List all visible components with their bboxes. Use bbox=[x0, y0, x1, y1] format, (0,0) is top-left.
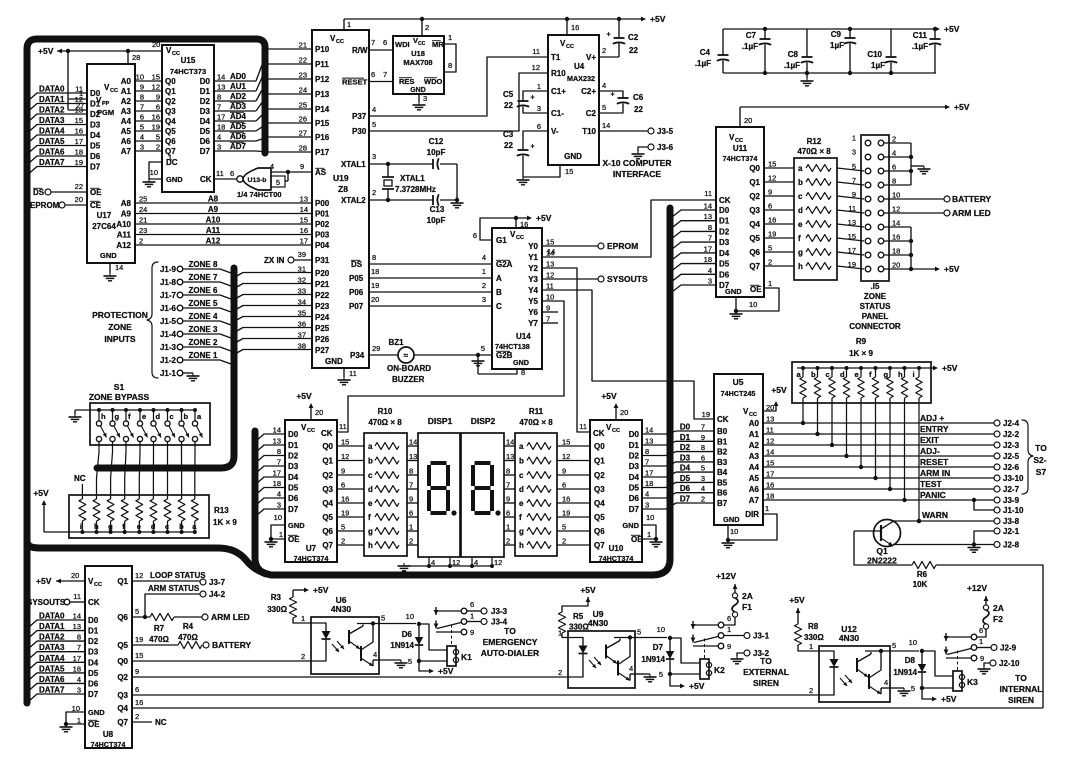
svg-text:D0: D0 bbox=[88, 616, 99, 625]
IC U7 74HCT374 display latch bbox=[285, 420, 337, 562]
svg-text:8: 8 bbox=[892, 177, 896, 186]
svg-text:J2-4: J2-4 bbox=[1003, 419, 1020, 428]
svg-text:15: 15 bbox=[75, 116, 83, 125]
svg-text:8: 8 bbox=[645, 447, 649, 456]
svg-text:P11: P11 bbox=[315, 60, 329, 69]
IC U8 74HCT374 output latch bbox=[85, 566, 132, 748]
wire DATA5 to U17 D5 bbox=[29, 146, 87, 153]
svg-text:U13-b: U13-b bbox=[248, 177, 267, 184]
capacitor C4 .1uF bbox=[718, 54, 729, 56]
wire R10 a to DISP1 bbox=[407, 445, 418, 447]
resistor R13-c bbox=[164, 499, 171, 521]
wire bus to U7 D0 bbox=[256, 434, 285, 441]
wire R9 b pull-up tap bbox=[817, 398, 819, 434]
svg-text:AD0: AD0 bbox=[230, 72, 247, 81]
svg-text:10pF: 10pF bbox=[427, 148, 446, 157]
svg-text:D2: D2 bbox=[90, 110, 101, 119]
svg-text:3: 3 bbox=[708, 277, 712, 286]
svg-text:4: 4 bbox=[602, 81, 606, 90]
svg-text:31: 31 bbox=[298, 265, 306, 274]
svg-text:Q7: Q7 bbox=[322, 541, 333, 550]
svg-text:4: 4 bbox=[645, 490, 649, 499]
wire Z8 DS to U14 G2A bbox=[369, 263, 492, 265]
relay K1 coil bbox=[447, 646, 456, 666]
wire U5 A0 signal ADJ + bbox=[763, 422, 994, 424]
svg-text:4: 4 bbox=[217, 133, 221, 142]
node ARM LED bbox=[202, 614, 208, 620]
node SYSOUTS bbox=[598, 276, 604, 282]
IC U17 27C64 EPROM bbox=[87, 64, 135, 263]
svg-text:D1: D1 bbox=[680, 433, 691, 442]
svg-text:S1: S1 bbox=[114, 382, 125, 392]
svg-text:7: 7 bbox=[140, 103, 144, 112]
wire S1-a to R13 bbox=[194, 442, 196, 499]
wire DATA2 to U17 D2 bbox=[29, 114, 87, 121]
svg-text:74HCT374: 74HCT374 bbox=[599, 554, 634, 563]
node J2-1 to ground bbox=[994, 528, 1000, 534]
svg-text:DATA5: DATA5 bbox=[39, 137, 65, 146]
svg-text:D6: D6 bbox=[90, 152, 101, 161]
wire R11 g to U10 Q6 bbox=[557, 530, 590, 532]
wire U11 Q2 to R12 c bbox=[764, 195, 794, 197]
resistor R7 470 bbox=[150, 613, 174, 620]
svg-text:12: 12 bbox=[75, 95, 83, 104]
wire DISP2 to R11 d bbox=[504, 488, 515, 490]
svg-text:+5V: +5V bbox=[954, 102, 970, 112]
svg-text:P16: P16 bbox=[315, 133, 330, 142]
svg-text:K1: K1 bbox=[461, 652, 472, 662]
svg-text:18: 18 bbox=[371, 267, 379, 276]
svg-text:7: 7 bbox=[506, 481, 510, 490]
svg-text:ZONE 6: ZONE 6 bbox=[189, 286, 218, 295]
svg-text:9: 9 bbox=[980, 654, 984, 663]
svg-text:10: 10 bbox=[909, 638, 917, 647]
svg-text:18: 18 bbox=[73, 664, 81, 673]
svg-text:21: 21 bbox=[299, 41, 307, 50]
node K2 contact 6 bbox=[718, 622, 724, 628]
node junction +5V to U17 pin28 bbox=[126, 49, 130, 53]
svg-text:1: 1 bbox=[809, 642, 813, 651]
svg-text:25: 25 bbox=[299, 101, 307, 110]
svg-text:15: 15 bbox=[848, 232, 856, 241]
svg-text:16: 16 bbox=[75, 127, 83, 136]
svg-text:4: 4 bbox=[77, 675, 81, 684]
wire U5 A6 signal TEST bbox=[763, 488, 994, 490]
svg-text:10: 10 bbox=[657, 625, 665, 634]
svg-text:10: 10 bbox=[730, 527, 738, 536]
svg-text:D6: D6 bbox=[88, 679, 99, 688]
svg-text:16: 16 bbox=[766, 481, 774, 490]
svg-text:Q5: Q5 bbox=[117, 641, 128, 650]
switch S1-d bbox=[153, 410, 155, 421]
svg-text:16: 16 bbox=[152, 113, 160, 122]
svg-text:11: 11 bbox=[579, 422, 587, 431]
svg-text:17: 17 bbox=[704, 244, 712, 253]
svg-text:ZONE: ZONE bbox=[864, 292, 887, 301]
ground S1 rail bbox=[74, 414, 76, 417]
svg-text:RESET: RESET bbox=[920, 457, 949, 467]
wire U7 Q5 to R10 f bbox=[337, 516, 364, 518]
ground crystal caps bbox=[456, 200, 458, 203]
ground J3-2 bbox=[736, 656, 738, 659]
svg-text:1N914: 1N914 bbox=[893, 668, 917, 677]
wire U17 A7 to U15 Q7 bbox=[135, 150, 162, 152]
wire R11 f to U10 Q5 bbox=[557, 516, 590, 518]
svg-text:d: d bbox=[156, 412, 161, 421]
svg-text:U19: U19 bbox=[333, 173, 349, 183]
svg-text:5: 5 bbox=[701, 464, 705, 473]
svg-text:P03: P03 bbox=[315, 231, 330, 240]
svg-text:GND: GND bbox=[410, 87, 426, 94]
svg-text:13: 13 bbox=[546, 260, 554, 269]
svg-text:D1: D1 bbox=[288, 441, 299, 450]
svg-text:16: 16 bbox=[768, 216, 776, 225]
switch S1-c bbox=[167, 410, 169, 421]
svg-text:LOOP STATUS: LOOP STATUS bbox=[150, 571, 206, 580]
wire DATA1 to U17 D1 bbox=[29, 104, 87, 111]
svg-text:470Ω: 470Ω bbox=[149, 635, 169, 644]
svg-text:8: 8 bbox=[277, 447, 281, 456]
svg-text:13: 13 bbox=[75, 106, 83, 115]
svg-text:7: 7 bbox=[371, 38, 375, 47]
wire R10 f to DISP1 bbox=[407, 516, 418, 518]
wire A12 bus U17 to Z8 P04 bbox=[135, 244, 312, 246]
svg-text:AS: AS bbox=[315, 168, 327, 177]
svg-text:J2-8: J2-8 bbox=[1003, 541, 1020, 550]
wire - thick outline bottom edge joining display section and right bus bbox=[28, 208, 670, 575]
svg-text:D7: D7 bbox=[200, 147, 211, 156]
svg-text:EMERGENCY: EMERGENCY bbox=[483, 637, 538, 647]
wire zone bus to Z8 P22 bbox=[234, 295, 312, 300]
svg-text:INTERNAL: INTERNAL bbox=[1000, 684, 1043, 694]
svg-text:2: 2 bbox=[602, 46, 606, 55]
svg-text:D3: D3 bbox=[719, 238, 730, 247]
svg-text:17: 17 bbox=[73, 654, 81, 663]
svg-text:P25: P25 bbox=[315, 324, 330, 333]
wire DATA7 to U17 D7 bbox=[29, 167, 87, 174]
wire U17 A2 to U15 Q2 bbox=[135, 100, 162, 102]
capacitor C11 .1uF bbox=[934, 29, 936, 39]
svg-text:6: 6 bbox=[473, 231, 477, 240]
wire relay K2 actuator link bbox=[704, 639, 706, 660]
svg-text:Q0: Q0 bbox=[322, 442, 333, 451]
transistor pair inside U6 bbox=[348, 630, 350, 644]
svg-text:20: 20 bbox=[766, 403, 774, 412]
svg-text:13: 13 bbox=[73, 622, 81, 631]
IC U15 74HCT373 address latch bbox=[162, 45, 214, 192]
svg-text:GND: GND bbox=[622, 521, 639, 530]
svg-text:C2: C2 bbox=[586, 109, 597, 118]
svg-text:i: i bbox=[80, 522, 82, 531]
svg-text:DATA2: DATA2 bbox=[39, 633, 65, 642]
svg-text:D0: D0 bbox=[90, 89, 101, 98]
svg-text:6: 6 bbox=[341, 481, 345, 490]
svg-text:A10: A10 bbox=[206, 216, 221, 225]
wire U18 Vcc pin2 to +5V rail bbox=[421, 19, 423, 36]
wire DISP2 to R11 b bbox=[504, 460, 515, 462]
svg-text:≈: ≈ bbox=[404, 351, 409, 360]
svg-text:6: 6 bbox=[506, 509, 510, 518]
wire U5 A5 signal ARM IN bbox=[763, 477, 994, 479]
relay K1 contact arm bbox=[436, 610, 461, 612]
wire bus to U11 D4 bbox=[672, 253, 716, 260]
svg-text:P02: P02 bbox=[315, 220, 330, 229]
svg-text:13: 13 bbox=[409, 452, 417, 461]
svg-text:18: 18 bbox=[217, 123, 225, 132]
svg-text:J3-7: J3-7 bbox=[209, 578, 226, 587]
svg-text:11: 11 bbox=[339, 422, 347, 431]
svg-text:11: 11 bbox=[349, 369, 357, 378]
wire bus to U11 D0 bbox=[672, 210, 716, 217]
svg-text:2: 2 bbox=[409, 537, 413, 546]
svg-text:9: 9 bbox=[727, 642, 731, 651]
svg-text:D4: D4 bbox=[719, 249, 730, 258]
svg-text:2: 2 bbox=[372, 188, 376, 197]
svg-text:1: 1 bbox=[647, 530, 651, 539]
svg-text:15: 15 bbox=[768, 160, 776, 169]
svg-text:P31: P31 bbox=[315, 256, 330, 265]
svg-text:PP: PP bbox=[102, 101, 110, 107]
node J2-3 bbox=[994, 442, 1000, 448]
svg-text:D7: D7 bbox=[653, 643, 664, 652]
diode LED inside U9 bbox=[568, 638, 583, 646]
node junction buzzer ground bbox=[476, 353, 480, 357]
svg-text:Q2: Q2 bbox=[165, 97, 176, 106]
node junction AS to gate inputs bbox=[286, 170, 290, 174]
svg-text:WDI: WDI bbox=[395, 40, 410, 49]
svg-text:1N914: 1N914 bbox=[641, 655, 665, 664]
svg-text:h: h bbox=[368, 541, 373, 550]
node J1-10 bbox=[972, 498, 976, 502]
node J5 pins 9/10 bbox=[865, 196, 871, 202]
wire zone bus to Z8 P27 bbox=[234, 350, 312, 355]
svg-text:J2-6: J2-6 bbox=[1003, 463, 1020, 472]
svg-text:1: 1 bbox=[448, 33, 452, 42]
svg-text:D3: D3 bbox=[90, 121, 101, 130]
wire R11 h to U10 Q7 bbox=[557, 544, 590, 546]
svg-text:74HCT245: 74HCT245 bbox=[721, 389, 756, 398]
wire S1-b to R13 bbox=[181, 442, 183, 499]
svg-text:A8: A8 bbox=[208, 195, 219, 204]
svg-text:a: a bbox=[798, 164, 803, 173]
svg-text:G2B: G2B bbox=[496, 351, 513, 360]
svg-text:A1: A1 bbox=[121, 87, 132, 96]
svg-text:12: 12 bbox=[135, 571, 143, 580]
svg-text:18: 18 bbox=[645, 479, 653, 488]
wire zone bus to Z8 P26 bbox=[234, 339, 312, 344]
svg-text:ZONE BYPASS: ZONE BYPASS bbox=[89, 392, 150, 402]
relay K2 contact arm bbox=[693, 624, 718, 626]
svg-text:D0: D0 bbox=[200, 77, 211, 86]
svg-text:2: 2 bbox=[768, 258, 772, 267]
ground J2-10 bbox=[983, 666, 985, 669]
svg-text:24: 24 bbox=[299, 86, 307, 95]
svg-text:PANIC: PANIC bbox=[920, 490, 946, 500]
resistor R9-g bbox=[888, 366, 892, 370]
svg-text:D8: D8 bbox=[905, 656, 916, 665]
svg-text:CK: CK bbox=[593, 429, 605, 438]
svg-text:A6: A6 bbox=[121, 137, 132, 146]
wire U17 A5 to U15 Q5 bbox=[135, 130, 162, 132]
svg-text:b: b bbox=[519, 457, 524, 466]
svg-text:Y2: Y2 bbox=[528, 264, 538, 273]
svg-text:17: 17 bbox=[766, 470, 774, 479]
svg-text:6: 6 bbox=[140, 113, 144, 122]
ground U18 GND pin3 bbox=[418, 94, 420, 102]
svg-text:5: 5 bbox=[852, 162, 856, 171]
svg-text:2: 2 bbox=[558, 668, 562, 677]
svg-text:Q7: Q7 bbox=[749, 262, 760, 271]
node J3-2 ground bbox=[744, 650, 750, 656]
svg-text:A: A bbox=[496, 274, 502, 283]
svg-text:P23: P23 bbox=[315, 302, 330, 311]
node junction D8/K3 pin10 bbox=[920, 649, 924, 653]
wire Z8 RESET to U18 RES bbox=[369, 81, 393, 83]
node contact 9 bbox=[971, 655, 977, 661]
svg-text:A0: A0 bbox=[121, 77, 132, 86]
svg-text:R13: R13 bbox=[214, 506, 229, 515]
ground U17 GND pin 14 bbox=[109, 263, 111, 273]
svg-text:R11: R11 bbox=[529, 407, 544, 416]
svg-text:6: 6 bbox=[537, 122, 541, 131]
wire DISP2 to R11 e bbox=[504, 502, 515, 504]
svg-text:35: 35 bbox=[298, 309, 306, 318]
svg-text:D1: D1 bbox=[88, 627, 99, 636]
ground U11 bbox=[735, 311, 737, 314]
node J3-5 T10 output bbox=[599, 130, 648, 132]
svg-text:A9: A9 bbox=[208, 205, 219, 214]
wire R12 a to J5 bbox=[837, 168, 864, 171]
resistor R13-f bbox=[121, 499, 128, 521]
svg-text:D6: D6 bbox=[719, 270, 730, 279]
wire DATA2 to U8 D2 bbox=[29, 641, 85, 648]
wire U14 Y4 to U5 CK bbox=[542, 290, 714, 419]
svg-text:1: 1 bbox=[727, 625, 731, 634]
svg-text:Q6: Q6 bbox=[594, 527, 605, 536]
node J2-7 bbox=[994, 486, 1000, 492]
svg-text:DATA7: DATA7 bbox=[39, 158, 65, 167]
node junction D6/K1 pin10 bbox=[417, 622, 421, 626]
svg-text:D7: D7 bbox=[288, 505, 299, 514]
svg-text:DISP1: DISP1 bbox=[428, 416, 453, 426]
ground J5 even pins bbox=[923, 166, 925, 169]
wire U5 A1 signal ENTRY bbox=[763, 433, 994, 435]
svg-text:CK: CK bbox=[200, 175, 212, 184]
svg-text:A9: A9 bbox=[121, 210, 132, 219]
svg-text:DATA3: DATA3 bbox=[39, 643, 65, 652]
svg-text:9: 9 bbox=[470, 628, 474, 637]
wire A11 bus U17 to Z8 P03 bbox=[135, 234, 312, 236]
ground bypass rail bbox=[806, 78, 808, 81]
svg-text:1: 1 bbox=[765, 504, 769, 513]
svg-text:14: 14 bbox=[73, 612, 81, 621]
node J3-9 bbox=[994, 497, 1000, 503]
svg-text:BATTERY: BATTERY bbox=[212, 640, 252, 650]
svg-text:18: 18 bbox=[75, 148, 83, 157]
svg-text:Q6: Q6 bbox=[117, 613, 128, 622]
svg-text:Q1: Q1 bbox=[594, 457, 605, 466]
svg-text:1: 1 bbox=[301, 614, 305, 623]
svg-text:TO: TO bbox=[1015, 673, 1027, 683]
svg-text:74HCT374: 74HCT374 bbox=[723, 154, 758, 163]
relay K3 coil bbox=[953, 671, 962, 691]
svg-text:74HCT374: 74HCT374 bbox=[91, 740, 126, 749]
svg-text:10: 10 bbox=[274, 513, 282, 522]
svg-text:DATA1: DATA1 bbox=[39, 95, 65, 104]
svg-text:CC: CC bbox=[172, 51, 180, 57]
svg-text:TO: TO bbox=[1035, 443, 1047, 453]
wire K2 +5V feed bbox=[670, 674, 681, 686]
svg-text:ADJ-: ADJ- bbox=[920, 446, 940, 456]
svg-text:2: 2 bbox=[506, 537, 510, 546]
svg-text:h: h bbox=[101, 412, 106, 421]
svg-text:STATUS: STATUS bbox=[860, 302, 891, 311]
svg-text:9: 9 bbox=[546, 304, 550, 313]
svg-text:e: e bbox=[855, 370, 859, 379]
wire A10 bus U17 to Z8 P02 bbox=[135, 223, 312, 225]
svg-text:5: 5 bbox=[276, 178, 280, 187]
buzzer BZ1 on-board bbox=[398, 347, 414, 363]
wire U7 Q6 to R10 g bbox=[337, 530, 364, 532]
svg-text:23: 23 bbox=[139, 226, 147, 235]
svg-text:5: 5 bbox=[372, 120, 376, 129]
svg-text:9: 9 bbox=[701, 433, 705, 442]
svg-text:SYSOUTS: SYSOUTS bbox=[27, 598, 66, 607]
svg-text:P12: P12 bbox=[315, 75, 330, 84]
wire zone bus to Z8 P24 bbox=[234, 317, 312, 322]
svg-text:Q4: Q4 bbox=[117, 704, 128, 713]
svg-text:16: 16 bbox=[300, 226, 308, 235]
svg-text:C1-: C1- bbox=[551, 109, 564, 118]
svg-text:Y6: Y6 bbox=[528, 308, 538, 317]
svg-text:A4: A4 bbox=[749, 463, 760, 472]
svg-text:C5: C5 bbox=[503, 90, 514, 99]
svg-text:T10: T10 bbox=[582, 127, 596, 136]
switch S1-b bbox=[181, 410, 183, 421]
svg-text:RESET: RESET bbox=[342, 78, 368, 87]
svg-text:CC: CC bbox=[749, 412, 757, 418]
svg-text:C2+: C2+ bbox=[581, 87, 596, 96]
svg-text:10: 10 bbox=[150, 168, 158, 177]
svg-text:5: 5 bbox=[637, 628, 641, 637]
svg-text:ZONE: ZONE bbox=[108, 322, 132, 332]
power +5V bypass capacitor rail bbox=[723, 28, 936, 30]
wire R3 to U6 pin1 bbox=[293, 618, 311, 623]
svg-text:P26: P26 bbox=[315, 335, 330, 344]
wire U10 D0 across bus to U5 B0 bbox=[642, 433, 666, 435]
ground displays bbox=[403, 563, 405, 566]
node junction K3 pin5 bbox=[920, 686, 924, 690]
svg-text:K3: K3 bbox=[967, 677, 978, 687]
wire U17 Vcc pin 28 bbox=[127, 51, 129, 64]
svg-text:.1µF: .1µF bbox=[912, 42, 928, 51]
svg-text:P15: P15 bbox=[315, 119, 330, 128]
node K3 contact 6 bbox=[971, 634, 977, 640]
svg-text:e: e bbox=[798, 220, 803, 229]
svg-text:D2: D2 bbox=[288, 452, 299, 461]
svg-text:U4: U4 bbox=[574, 62, 585, 71]
svg-text:15: 15 bbox=[300, 216, 308, 225]
svg-text:22: 22 bbox=[504, 101, 513, 110]
svg-text:470Ω × 8: 470Ω × 8 bbox=[519, 418, 553, 427]
svg-text:B: B bbox=[496, 288, 502, 297]
wire U15 D2 / AD2 to Z8 P12 bbox=[214, 100, 256, 102]
svg-text:CC: CC bbox=[110, 88, 118, 94]
svg-text:12: 12 bbox=[562, 452, 570, 461]
svg-text:11: 11 bbox=[216, 169, 224, 178]
wire DATA4 to U8 D4 bbox=[29, 662, 85, 669]
wire S1-e to R13 bbox=[138, 442, 141, 499]
